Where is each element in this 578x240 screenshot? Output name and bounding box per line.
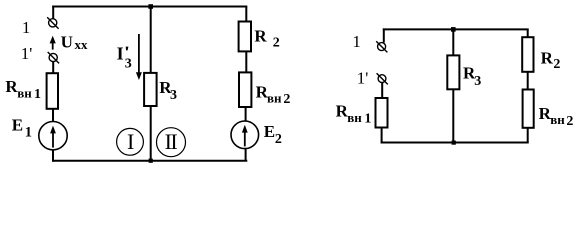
wire: terminal 1' to Rвн1 bbox=[52, 62, 54, 74]
label I'3 bbox=[117, 43, 132, 71]
svg-text:1': 1' bbox=[357, 68, 369, 87]
svg-text:R: R bbox=[541, 48, 554, 67]
resistor R3 (left circuit) bbox=[144, 73, 157, 106]
svg-text:R: R bbox=[254, 26, 267, 45]
svg-text:1: 1 bbox=[364, 111, 371, 126]
wire: Rвн1 to bottom rail (right circuit) bbox=[381, 128, 383, 144]
label R2 (right circuit) bbox=[541, 48, 561, 72]
svg-text:E: E bbox=[264, 122, 275, 141]
arrow Uxx (up) bbox=[50, 36, 56, 50]
wire: drop to terminal 1 (right circuit) bbox=[383, 28, 385, 42]
resistor R2 (right circuit) bbox=[522, 37, 533, 72]
wire: right circuit top rail bbox=[383, 28, 529, 30]
svg-text:I: I bbox=[117, 43, 124, 63]
wire: middle branch lower (right circuit) bbox=[452, 89, 454, 142]
svg-text:2: 2 bbox=[283, 92, 290, 107]
resistor Rвн1 (left circuit) bbox=[47, 73, 58, 109]
loop label II bbox=[157, 128, 186, 157]
wire: middle branch upper segment bbox=[150, 7, 152, 75]
svg-text:1: 1 bbox=[34, 87, 41, 102]
svg-text:U: U bbox=[61, 33, 73, 52]
wire: left circuit top rail bbox=[52, 6, 247, 8]
label Rвн2 (left circuit) bbox=[256, 82, 291, 107]
terminal 1 (right circuit) bbox=[376, 41, 387, 52]
wire: Rвн2 to E2 bbox=[245, 107, 247, 122]
wire: right circuit bottom rail bbox=[381, 142, 529, 144]
wire: middle branch lower segment bbox=[150, 106, 152, 161]
wire: E2 to bottom rail bbox=[245, 149, 247, 161]
wire: Rвн2 to bottom rail (right circuit) bbox=[527, 128, 529, 143]
svg-text:1: 1 bbox=[352, 32, 361, 51]
label Rвн1 (left circuit) bbox=[5, 77, 41, 102]
terminal 1' (left circuit) bbox=[48, 52, 59, 63]
label R2 (left circuit) bbox=[254, 26, 279, 50]
wire: terminal 1' to Rвн1 (right circuit) bbox=[381, 82, 383, 98]
terminal 1' (right circuit) bbox=[377, 73, 388, 84]
label Rвн1 (right circuit) bbox=[336, 102, 372, 127]
arrow I'3 (down) bbox=[136, 34, 142, 80]
svg-text:вн: вн bbox=[267, 90, 282, 105]
wire: left circuit bottom rail bbox=[52, 160, 247, 162]
junction dot top middle (left circuit) bbox=[148, 4, 153, 9]
svg-text:2: 2 bbox=[566, 114, 573, 129]
label Uхх bbox=[61, 33, 88, 52]
svg-text:вн: вн bbox=[347, 110, 362, 125]
loop label I bbox=[117, 128, 144, 155]
label Rвн2 (right circuit) bbox=[539, 104, 574, 129]
resistor Rвн1 (right circuit) bbox=[376, 98, 388, 128]
terminal 1 (left circuit) bbox=[47, 17, 58, 28]
wire: E1 to bottom rail bbox=[52, 150, 54, 162]
svg-text:2: 2 bbox=[275, 132, 282, 147]
svg-text:E: E bbox=[12, 116, 23, 135]
resistor R2 (left circuit) bbox=[239, 22, 251, 52]
resistor Rвн2 (left circuit) bbox=[239, 72, 251, 107]
label E1 bbox=[12, 116, 32, 141]
svg-text:хх: хх bbox=[75, 37, 89, 52]
svg-text:1: 1 bbox=[25, 125, 32, 141]
wire: drop from top rail to terminal 1 bbox=[52, 6, 54, 19]
svg-text:II: II bbox=[165, 129, 178, 154]
label R3 (right circuit) bbox=[463, 64, 481, 89]
resistor Rвн2 (right circuit) bbox=[523, 90, 534, 128]
wire: right branch top (left circuit) bbox=[245, 7, 247, 23]
svg-text:3: 3 bbox=[125, 56, 132, 71]
resistor R3 (right circuit) bbox=[447, 55, 459, 89]
wire: right branch top (right circuit) bbox=[527, 29, 529, 38]
svg-text:вн: вн bbox=[17, 85, 32, 100]
svg-text:2: 2 bbox=[553, 57, 560, 72]
junction dot bottom middle (left circuit) bbox=[149, 159, 153, 163]
svg-text:1': 1' bbox=[21, 44, 33, 63]
svg-text:I: I bbox=[127, 129, 134, 154]
EMF source E1 bbox=[39, 122, 67, 150]
junction dot bottom (right circuit) bbox=[452, 141, 456, 145]
svg-text:1: 1 bbox=[22, 18, 31, 37]
wire: R2 to Rвн2 (right circuit) bbox=[527, 72, 529, 91]
EMF source E2 bbox=[231, 121, 259, 149]
wire: R2 to Rвн2 bbox=[245, 51, 247, 73]
wire: middle branch upper (right circuit) bbox=[452, 29, 454, 56]
svg-text:3: 3 bbox=[170, 88, 177, 103]
label E2 bbox=[264, 122, 282, 147]
svg-text:2: 2 bbox=[273, 36, 280, 51]
junction dot top (right circuit) bbox=[451, 27, 456, 32]
label R3 (left circuit) bbox=[159, 78, 177, 103]
svg-text:вн: вн bbox=[550, 112, 565, 127]
svg-text:3: 3 bbox=[474, 74, 481, 89]
wire: Rвн1 to E1 bbox=[52, 109, 54, 122]
